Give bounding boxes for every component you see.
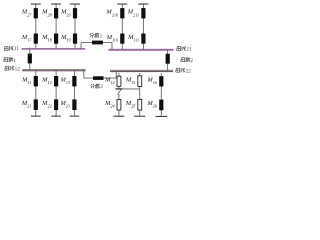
svg-text:M25: M25: [125, 100, 136, 109]
svg-text:22: 22: [186, 69, 192, 75]
svg-text:2: 2: [190, 58, 193, 64]
svg-text:M111: M111: [127, 34, 139, 43]
svg-text:1: 1: [100, 33, 103, 39]
svg-text:M21: M21: [21, 100, 32, 109]
svg-text:M23: M23: [59, 100, 70, 109]
svg-text:M28: M28: [41, 9, 52, 18]
svg-text:M27: M27: [21, 9, 32, 18]
svg-text:M24: M24: [104, 100, 115, 109]
svg-text:M17: M17: [21, 34, 32, 43]
svg-text:1: 1: [13, 58, 16, 64]
svg-text:M15: M15: [125, 77, 136, 86]
svg-text:21: 21: [186, 47, 192, 53]
svg-text:M13: M13: [59, 77, 70, 86]
svg-text:M22: M22: [41, 100, 52, 109]
svg-text:12: 12: [15, 66, 21, 72]
svg-text:11: 11: [14, 46, 19, 52]
svg-text:M110: M110: [106, 34, 119, 43]
svg-text:M16: M16: [146, 77, 157, 86]
svg-text:M19: M19: [60, 34, 71, 43]
svg-text:2: 2: [100, 84, 103, 90]
svg-text:M18: M18: [41, 34, 52, 43]
svg-text:M29: M29: [60, 9, 71, 18]
svg-text:M12: M12: [41, 77, 52, 86]
svg-text:M11: M11: [21, 77, 31, 86]
svg-text:M210: M210: [105, 9, 119, 18]
svg-text:M26: M26: [146, 100, 157, 109]
svg-text:M211: M211: [127, 9, 139, 18]
